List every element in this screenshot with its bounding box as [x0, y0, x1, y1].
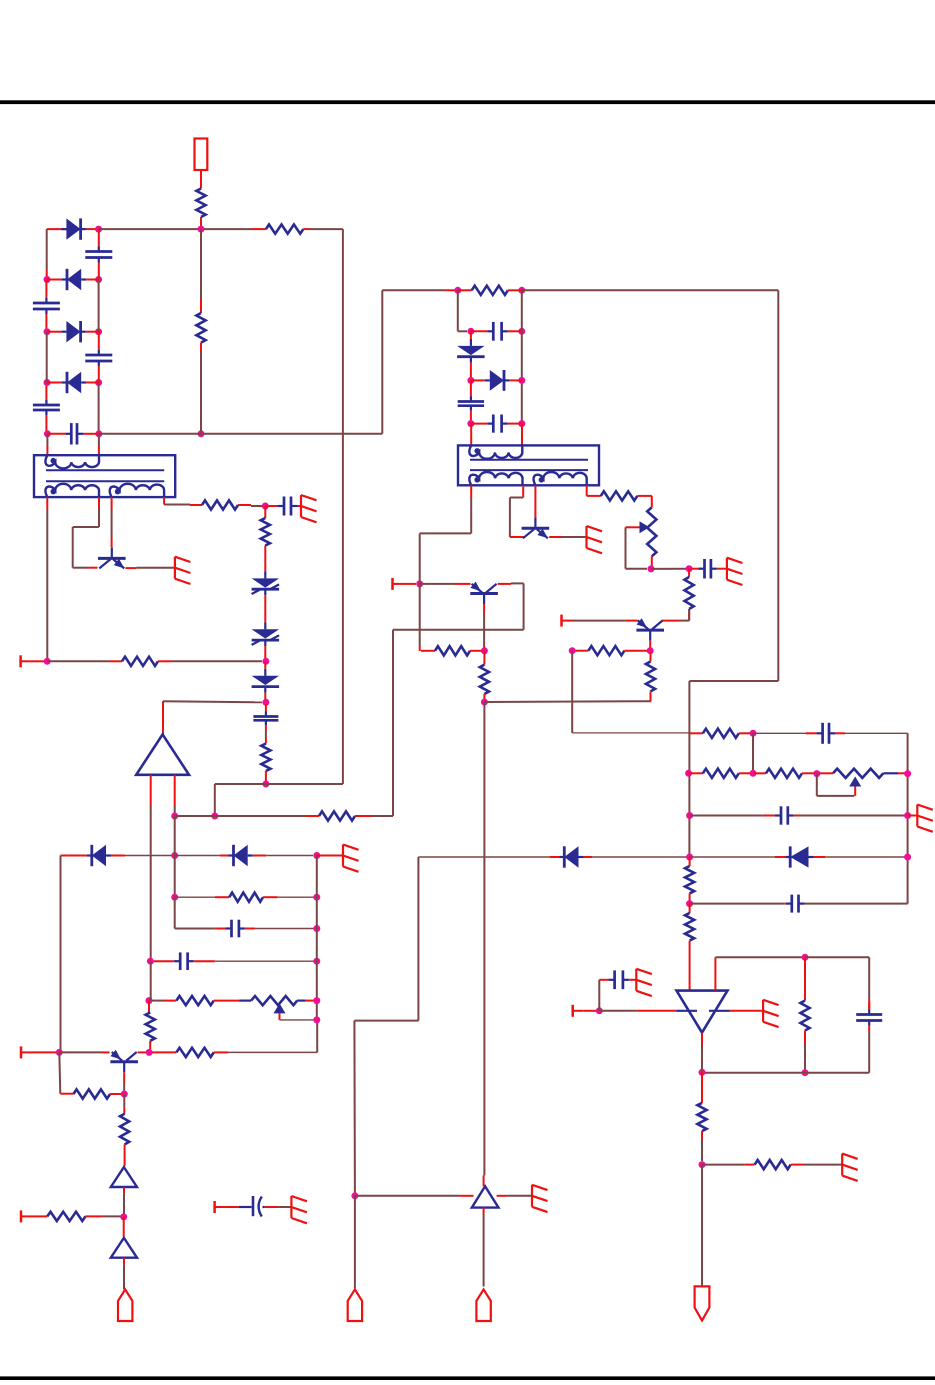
capacitor C18: [154, 952, 215, 970]
wire: [592, 856, 687, 858]
wire: [32, 660, 44, 662]
junction: [44, 379, 51, 386]
wire: [214, 784, 216, 816]
wire: [266, 855, 313, 857]
wire: [649, 641, 651, 648]
junction: [44, 430, 51, 437]
resistor R9: [421, 646, 482, 655]
junction: [146, 1049, 153, 1056]
wire: [521, 290, 523, 423]
wire: [845, 732, 908, 734]
wire: [629, 979, 636, 981]
spark gap SG2: [111, 1238, 137, 1258]
junction: [904, 770, 911, 777]
wire: [123, 1217, 125, 1237]
wire: [47, 660, 110, 662]
wire: [571, 651, 573, 733]
resistor R18: [754, 769, 814, 778]
wire: [98, 280, 100, 332]
wire: [483, 646, 485, 648]
wire: [215, 783, 343, 785]
terminal: [562, 615, 573, 627]
ground: [343, 845, 359, 872]
wire: [676, 1010, 697, 1012]
wire: [251, 505, 262, 507]
trimmer VR1 wiper: [640, 521, 650, 533]
wire: [47, 228, 67, 230]
wire: [200, 229, 202, 299]
wire: [522, 485, 524, 497]
diode D2: [47, 269, 99, 290]
wire: [598, 980, 600, 1011]
wire: [460, 1195, 474, 1197]
trimmer VR3: [251, 996, 297, 1005]
wire: [85, 228, 95, 230]
wire: [825, 856, 907, 858]
resistor R28: [215, 893, 278, 902]
junction: [416, 580, 423, 587]
resistor R8: [305, 811, 371, 820]
capacitor C17: [215, 920, 255, 938]
wire: [46, 445, 48, 455]
resistor R4: [190, 500, 251, 509]
wire: [483, 1176, 485, 1187]
resistor R5: [261, 518, 270, 556]
junction: [518, 377, 525, 384]
wire: [99, 228, 198, 230]
junction: [518, 420, 525, 427]
trimmer VR1: [647, 507, 656, 566]
capacitor C3: [85, 332, 112, 383]
junction: [467, 328, 474, 335]
wire: [470, 485, 472, 497]
wire: [61, 855, 68, 857]
transformer T1: [34, 455, 175, 497]
wire: [484, 700, 651, 703]
capacitor C8: [471, 322, 522, 341]
wire: [123, 1265, 125, 1290]
wire: [123, 1094, 125, 1107]
wire: [46, 270, 48, 280]
junction: [211, 813, 218, 820]
wire: [306, 1000, 314, 1002]
wire: [123, 1258, 125, 1265]
junction: [146, 997, 153, 1004]
wire: [316, 1023, 318, 1052]
junction: [262, 781, 269, 788]
capacitor C9: [458, 380, 484, 423]
wire: [99, 290, 382, 434]
junction: [686, 900, 693, 907]
wire: [32, 1215, 47, 1217]
capacitor C19: [239, 1206, 252, 1208]
terminal: [21, 1210, 32, 1222]
diode D8b: [220, 845, 267, 866]
wire: [805, 957, 869, 1000]
junction: [120, 1213, 127, 1220]
diode D5: [252, 661, 280, 700]
junction: [313, 997, 320, 1004]
wire: [123, 1081, 125, 1091]
junction: [699, 1161, 706, 1168]
wire: [730, 1010, 764, 1012]
wire: [264, 556, 266, 569]
wire: [572, 732, 689, 734]
trimmer VR3 wiper: [274, 1003, 286, 1013]
junction: [313, 894, 320, 901]
capacitor C6: [265, 497, 301, 516]
wire: [586, 485, 588, 496]
wire: [522, 290, 779, 857]
ground: [587, 526, 603, 553]
wire: [123, 1107, 125, 1113]
wire: [483, 702, 485, 1176]
capacitor C7: [253, 704, 278, 730]
wire: [317, 855, 343, 857]
wire: [88, 567, 97, 569]
resistor R11: [646, 652, 655, 700]
junction: [647, 647, 654, 654]
wire: [226, 1206, 239, 1208]
junction: [313, 925, 320, 932]
wire: [419, 645, 421, 651]
wire: [228, 1051, 317, 1053]
wire: [371, 583, 524, 816]
ground: [842, 1154, 858, 1181]
wire: [714, 957, 716, 990]
wire: [73, 507, 99, 568]
wire: [355, 1195, 460, 1197]
wire: [511, 582, 524, 584]
wire: [138, 1051, 146, 1053]
capacitor C11: [699, 559, 717, 579]
diode D4: [47, 372, 99, 393]
wire: [98, 497, 100, 507]
junction: [198, 226, 205, 233]
wire: [907, 733, 909, 903]
wire: [46, 332, 48, 383]
diode D8a: [67, 845, 125, 866]
junction: [171, 852, 178, 859]
terminal: [21, 1046, 32, 1058]
wire: [404, 583, 417, 585]
wire: [752, 733, 754, 773]
capacitor C10: [471, 415, 522, 433]
ground: [636, 969, 652, 996]
resistor R6: [110, 657, 172, 666]
junction: [351, 1192, 358, 1199]
wire: [60, 856, 62, 1053]
wire: [690, 856, 775, 858]
wire: [587, 495, 590, 497]
wire: [174, 816, 176, 897]
transformer T2: [458, 445, 599, 485]
wire: [316, 856, 318, 1023]
junction: [686, 812, 693, 819]
resistor R27: [47, 1212, 102, 1221]
wire: [98, 445, 100, 455]
transistor Q1: [98, 547, 126, 568]
wire: [172, 660, 262, 662]
resistor R29: [176, 996, 239, 1005]
wire: [701, 1033, 703, 1045]
zener Z2: [252, 622, 280, 650]
wire: [150, 775, 152, 806]
junction: [95, 226, 102, 233]
wire: [354, 857, 418, 1196]
wire: [483, 1208, 485, 1213]
resistor R15: [458, 286, 522, 295]
wire: [204, 228, 252, 230]
wire: [264, 650, 266, 661]
wire: [690, 815, 763, 817]
wire: [163, 497, 165, 504]
wire: [690, 903, 785, 905]
wire: [510, 498, 523, 538]
wire: [382, 289, 445, 291]
wire: [59, 1052, 60, 1093]
diode D6: [457, 331, 485, 380]
resistor R21: [800, 1001, 809, 1045]
capacitor C5: [47, 423, 99, 444]
diode D10: [775, 846, 825, 867]
wire: [445, 289, 458, 291]
transistor Q6: [110, 1050, 138, 1072]
wire: [689, 904, 691, 913]
wire: [163, 701, 262, 702]
junction: [802, 954, 809, 961]
junction: [904, 854, 911, 861]
wire: [650, 699, 653, 702]
wire: [701, 1072, 703, 1103]
capacitor C14: [784, 895, 806, 913]
resistor R12: [576, 646, 648, 655]
wire: [817, 774, 855, 796]
wire: [715, 956, 805, 958]
terminal: [215, 1201, 226, 1213]
ground: [763, 1000, 779, 1027]
connector P2: [348, 1289, 362, 1321]
transistor Q5: [470, 582, 498, 604]
junction: [685, 770, 692, 777]
resistor R23: [745, 1160, 803, 1169]
wire: [111, 538, 113, 548]
wire: [123, 1187, 125, 1193]
junction: [262, 658, 269, 665]
wire: [123, 1072, 125, 1081]
wire: [549, 536, 562, 538]
diode D7: [471, 370, 522, 391]
trimmer VR2: [833, 769, 883, 778]
capacitor C16: [609, 970, 629, 989]
wire: [163, 1000, 176, 1002]
wire: [32, 1051, 56, 1053]
junction: [518, 328, 525, 335]
wire: [46, 509, 48, 661]
wire: [483, 614, 485, 647]
wire: [200, 170, 202, 189]
wire: [753, 732, 806, 734]
zener Z1: [252, 569, 280, 598]
wire: [651, 496, 653, 507]
wire: [709, 1010, 730, 1012]
diode D1: [61, 218, 85, 239]
wire: [510, 536, 525, 538]
wire: [626, 527, 648, 568]
resistor R20: [685, 913, 694, 991]
resistor R24: [176, 1048, 228, 1057]
wire: [702, 1032, 869, 1073]
junction: [802, 1069, 809, 1076]
wire: [277, 896, 316, 898]
wire: [908, 815, 918, 817]
diode D9: [550, 846, 592, 867]
capacitor C13: [763, 806, 800, 824]
junction: [44, 658, 51, 665]
wire: [689, 732, 703, 734]
wire: [599, 1010, 638, 1012]
junction: [699, 1069, 706, 1076]
wire: [534, 497, 536, 517]
wire: [470, 424, 472, 446]
wire: [688, 569, 690, 577]
wire: [483, 604, 485, 614]
wire: [215, 960, 317, 962]
junction: [171, 894, 178, 901]
junction: [813, 770, 820, 777]
junction: [596, 1007, 603, 1014]
junction: [467, 377, 474, 384]
wire: [420, 497, 472, 584]
diode D3: [47, 321, 99, 342]
ground: [175, 557, 191, 584]
wire: [175, 897, 215, 928]
resistor R26: [120, 1114, 129, 1167]
wire: [175, 815, 305, 817]
wire: [701, 1140, 703, 1161]
wire: [278, 1206, 291, 1208]
resistor R7: [261, 737, 270, 783]
wire: [60, 1093, 73, 1095]
wire: [663, 620, 680, 622]
junction: [121, 1091, 128, 1098]
junction: [904, 812, 911, 819]
junction: [44, 328, 51, 335]
wire: [562, 536, 587, 538]
wire: [498, 583, 511, 585]
wire: [701, 1165, 703, 1287]
wire: [458, 290, 467, 331]
wire: [240, 999, 252, 1001]
junction: [262, 503, 269, 510]
junction: [750, 730, 757, 737]
wire: [418, 856, 557, 858]
wire: [264, 506, 266, 518]
junction: [481, 647, 488, 654]
wire: [47, 434, 99, 445]
trimmer VR2 wiper: [849, 777, 861, 787]
wire: [898, 772, 905, 774]
resistor R22: [697, 1103, 706, 1140]
junction: [454, 287, 461, 294]
wire: [651, 568, 686, 570]
wire: [59, 1051, 101, 1053]
wire: [506, 1195, 532, 1197]
wire: [883, 772, 898, 774]
wire: [152, 1000, 163, 1002]
junction: [648, 565, 655, 572]
terminal: [393, 578, 404, 590]
capacitor C15: [856, 1002, 882, 1032]
wire: [123, 1193, 125, 1213]
junction: [686, 854, 693, 861]
wire: [164, 504, 190, 506]
junction: [686, 565, 693, 572]
wire: [310, 229, 343, 784]
ground: [291, 1196, 307, 1223]
ground: [917, 805, 933, 832]
wire: [638, 1010, 677, 1012]
junction: [95, 328, 102, 335]
wire: [868, 1000, 870, 1010]
junction: [481, 699, 488, 706]
wire: [111, 510, 113, 538]
junction: [56, 1049, 63, 1056]
wire: [702, 1164, 745, 1166]
resistor R3: [196, 313, 205, 352]
wire: [174, 775, 176, 806]
wire: [739, 772, 751, 774]
capacitor C2: [33, 280, 60, 332]
junction: [95, 276, 102, 283]
ground: [727, 558, 743, 585]
wire: [148, 1001, 150, 1013]
junction: [313, 852, 320, 859]
junction: [467, 420, 474, 427]
wire: [354, 1196, 356, 1289]
resistor R2: [252, 225, 310, 234]
wire: [804, 957, 806, 1000]
wire: [804, 1044, 806, 1073]
ground: [301, 495, 317, 522]
wire: [265, 730, 267, 737]
wire: [255, 928, 317, 930]
wire: [800, 815, 908, 817]
wire: [689, 857, 691, 866]
wire: [717, 568, 727, 570]
wire: [46, 229, 48, 270]
wire: [125, 855, 172, 857]
ground: [532, 1185, 548, 1212]
connector P3: [476, 1289, 490, 1321]
capacitor C4: [33, 383, 60, 434]
wire: [420, 583, 456, 585]
wire: [584, 1010, 596, 1012]
connector P1: [118, 1289, 132, 1321]
junction: [569, 647, 576, 654]
bottom rule: [0, 1376, 935, 1380]
wire: [483, 651, 485, 665]
junction: [147, 958, 154, 965]
resistor R10: [480, 665, 489, 702]
op-amp U1: [677, 991, 728, 1033]
transistor Q2: [522, 517, 550, 538]
resistor R1: [196, 189, 205, 227]
top rule: [0, 100, 935, 104]
wire: [701, 1045, 703, 1072]
junction: [313, 1016, 320, 1023]
wire: [521, 424, 523, 446]
